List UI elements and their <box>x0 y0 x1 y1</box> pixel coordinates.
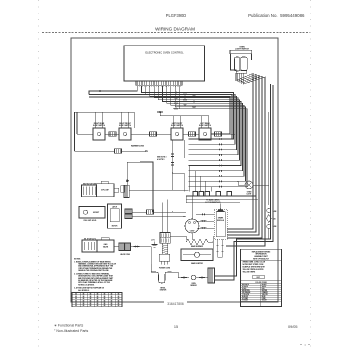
svg-text:Publication No. 5995449086: Publication No. 5995449086 <box>248 13 305 18</box>
svg-text:BROWN: BROWN <box>262 290 267 292</box>
wire under strip <box>186 199 258 201</box>
wire bundle lamp leads (diagonal) <box>227 73 253 229</box>
EOC pin header P1 <box>136 81 182 85</box>
oven lamp body <box>96 184 114 197</box>
surface element E4 <box>215 132 222 136</box>
wire feeder mid 2 <box>183 140 185 158</box>
svg-text:316417806: 316417806 <box>167 302 184 306</box>
wire supply feed 1 <box>215 84 271 276</box>
svg-text:YELLOW STRIPE: YELLOW STRIPE <box>243 271 256 273</box>
svg-text:SPARK: SPARK <box>218 217 224 220</box>
warmer arrow <box>122 150 149 152</box>
wire oven light right <box>253 184 269 186</box>
svg-text:09/05: 09/05 <box>288 325 298 329</box>
wire valve <box>114 246 119 248</box>
junction row B <box>172 211 173 212</box>
lamp 2 <box>241 57 247 71</box>
svg-text:REPLACEMENT WIRING: REPLACEMENT WIRING <box>252 250 271 253</box>
svg-text:OVN. LMP.: OVN. LMP. <box>101 190 110 192</box>
svg-text:88: 88 <box>90 303 92 305</box>
svg-text:TO BAKE & BROIL: TO BAKE & BROIL <box>206 198 219 201</box>
svg-text:BAKE IGNITOR: BAKE IGNITOR <box>191 262 203 265</box>
svg-text:MODULE: MODULE <box>217 220 224 222</box>
wire row B lower <box>132 216 186 218</box>
fold mark right <box>310 0 312 350</box>
bake burner element <box>186 239 208 245</box>
svg-text:1. MODEL IS REPLACEMENT OF: 1. MODEL IS REPLACEMENT OF MAIN WIRING <box>74 260 111 263</box>
lamp stub connector <box>114 188 119 192</box>
wire block to right <box>170 235 186 237</box>
svg-text:LATCH: LATCH <box>112 206 117 209</box>
svg-text:YELLOW: YELLOW <box>262 294 268 296</box>
svg-text:88: 88 <box>90 298 92 300</box>
connector mark mid wire <box>158 111 162 113</box>
oven lamp harness comb <box>82 185 97 197</box>
svg-text:SURF. SWITCH: SURF. SWITCH <box>119 125 132 127</box>
wire motor to module upper <box>196 213 214 215</box>
svg-text:SURF. SWITCH: SURF. SWITCH <box>199 125 212 127</box>
legend box <box>241 249 282 306</box>
svg-text:LIGHT: LIGHT <box>247 194 252 196</box>
surface element E1 <box>109 132 116 136</box>
surface element E3 <box>189 132 196 136</box>
connector J2 <box>124 185 130 197</box>
svg-text:88: 88 <box>111 293 113 295</box>
svg-text:CONV: CONV <box>190 231 196 233</box>
bottom left table <box>72 293 122 307</box>
wire bus L1 <box>89 95 232 140</box>
svg-text:88: 88 <box>104 293 106 295</box>
surface switch SW2 <box>119 128 131 140</box>
broil ignitor loop <box>151 272 172 283</box>
oven lamp assembly outline <box>230 50 252 53</box>
thermal fuse diamond <box>266 215 271 223</box>
fuse F1 <box>267 209 271 213</box>
wire to sensor <box>178 277 189 279</box>
connector mark valve wire <box>134 245 138 247</box>
svg-text:Y YELLOW: Y YELLOW <box>242 294 250 296</box>
gas valve box <box>97 240 114 252</box>
svg-text:WHITE: WHITE <box>262 286 266 288</box>
key badge <box>253 275 265 278</box>
wire valve to right <box>131 246 152 248</box>
svg-text:V VIOLET: V VIOLET <box>242 300 248 302</box>
color code table <box>241 285 282 287</box>
svg-text:VALVE: VALVE <box>103 245 109 248</box>
svg-text:R RED: R RED <box>242 288 246 290</box>
part number <box>164 300 187 306</box>
svg-text:BLUE: BLUE <box>262 296 266 298</box>
wire spark module leads <box>217 239 219 257</box>
svg-text:88: 88 <box>75 298 77 300</box>
wire latch to right <box>129 190 188 192</box>
svg-text:88: 88 <box>97 296 99 298</box>
svg-text:POWER CORD: POWER CORD <box>159 267 171 269</box>
svg-text:88: 88 <box>111 296 113 298</box>
svg-text:88: 88 <box>104 298 106 300</box>
fuse F2 <box>267 225 271 229</box>
svg-text:NOTES:: NOTES: <box>74 259 81 261</box>
wire fan EOC pins to right bundle <box>142 86 234 139</box>
svg-text:88: 88 <box>118 303 120 305</box>
surface element E2 <box>150 132 157 136</box>
wire row B upper <box>132 211 147 213</box>
svg-text:WARMER ZONE: WARMER ZONE <box>131 145 145 148</box>
svg-text:88: 88 <box>83 303 85 305</box>
connector valve B <box>125 243 131 251</box>
svg-text:88: 88 <box>104 303 106 305</box>
wire motor top <box>191 196 193 219</box>
svg-text:3. A FUSE LINK MAY NOT A: 3. A FUSE LINK MAY NOT APPEAR ON <box>74 287 105 290</box>
svg-text:88: 88 <box>83 298 85 300</box>
wire fuse down <box>268 229 270 240</box>
svg-text:OVEN: OVEN <box>191 283 195 285</box>
svg-text:88: 88 <box>104 296 106 298</box>
svg-text:88: 88 <box>118 298 120 300</box>
svg-text:& NOTE 5: & NOTE 5 <box>157 159 164 161</box>
svg-text:W WHITE: W WHITE <box>242 286 248 288</box>
diagram border <box>71 38 278 302</box>
svg-text:88: 88 <box>118 296 120 298</box>
spark module A1 <box>214 209 227 239</box>
svg-text:88: 88 <box>111 298 113 300</box>
wire feeder mid 1 <box>172 140 174 190</box>
wire left riser pair <box>76 112 78 134</box>
connector block L1/N <box>160 233 170 244</box>
svg-text:BROIL: BROIL <box>161 288 166 290</box>
svg-text:RED: RED <box>262 288 265 290</box>
terminal strip TS1 <box>186 195 256 197</box>
svg-text:L1 N: L1 N <box>151 240 155 242</box>
svg-text:88: 88 <box>83 293 85 295</box>
svg-text:88: 88 <box>118 293 120 295</box>
scan marks <box>300 344 310 347</box>
svg-text:ASSEMBLY PART: ASSEMBLY PART <box>254 255 267 258</box>
svg-text:MOTOR: MOTOR <box>112 226 118 228</box>
connector nub <box>121 186 125 192</box>
svg-text:88: 88 <box>97 298 99 300</box>
svg-text:BL BLUE: BL BLUE <box>242 296 248 298</box>
wire drops into oven cavity strip <box>188 166 190 192</box>
svg-text:SENSOR: SENSOR <box>190 285 197 287</box>
oven light B1 <box>245 181 253 189</box>
svg-text:88: 88 <box>90 293 92 295</box>
svg-text:SOCKET: SOCKET <box>93 212 99 214</box>
svg-text:88: 88 <box>83 296 85 298</box>
door latch motor <box>108 204 122 228</box>
wire motor bottom <box>191 233 193 240</box>
svg-text:∗ Functional Parts: ∗ Functional Parts <box>54 323 83 327</box>
wire drops to switches <box>95 112 97 128</box>
svg-text:88: 88 <box>75 296 77 298</box>
svg-text:VALVE CONN: VALVE CONN <box>120 253 130 256</box>
wire bus L2 <box>89 97 230 134</box>
svg-text:° Non-Illustrated Parts: ° Non-Illustrated Parts <box>54 329 89 333</box>
svg-text:WIRING DIAGRAM: WIRING DIAGRAM <box>155 27 195 32</box>
svg-text:SURF. SWITCH: SURF. SWITCH <box>93 125 106 127</box>
svg-text:88: 88 <box>75 303 77 305</box>
svg-text:PLGF390D: PLGF390D <box>166 13 187 18</box>
svg-text:88: 88 <box>90 296 92 298</box>
connector valve A <box>119 243 125 251</box>
ground symbol <box>154 242 156 245</box>
connector mark on left pin wire <box>98 90 102 92</box>
svg-text:BR BROWN: BR BROWN <box>242 290 250 292</box>
svg-text:OVEN: OVEN <box>247 191 252 193</box>
svg-text:88: 88 <box>75 293 77 295</box>
connector cluster J3 <box>125 209 132 214</box>
warmer element <box>115 149 122 153</box>
wire surface switch row <box>77 133 93 135</box>
lamp 1 <box>235 57 240 71</box>
power cord braid <box>162 243 167 254</box>
oven lamp socket box <box>79 207 105 219</box>
svg-text:88: 88 <box>111 303 113 305</box>
svg-text:VIOLET: VIOLET <box>262 300 267 302</box>
legend divider <box>241 260 282 262</box>
svg-text:ELECTRONIC OVEN CONTROL: ELECTRONIC OVEN CONTROL <box>145 51 184 55</box>
electronic oven control U1 <box>124 46 205 81</box>
lamp terminals <box>236 71 247 73</box>
wire burner to riser <box>208 241 213 243</box>
svg-text:BAKE BURNER: BAKE BURNER <box>191 245 204 248</box>
svg-text:15: 15 <box>174 325 178 329</box>
wire supply feed 2 <box>215 85 273 280</box>
svg-text:2. CONNECT WIRE TO MATCHIN: 2. CONNECT WIRE TO MATCHING TERMINAL <box>74 272 109 275</box>
wire EOC pin bus left <box>89 86 137 94</box>
svg-text:SURF. SWITCH: SURF. SWITCH <box>171 125 184 127</box>
wire oven light left <box>238 184 245 186</box>
wire to module corner <box>197 227 214 229</box>
ignitor <box>194 252 199 257</box>
title rule <box>42 31 310 33</box>
wire risers into block <box>162 203 164 233</box>
oven sensor RTD <box>191 275 196 280</box>
wire broil left <box>150 264 152 272</box>
svg-text:88: 88 <box>97 303 99 305</box>
wire riser from J2 <box>126 162 128 185</box>
svg-text:SEE NOTE 3: SEE NOTE 3 <box>157 157 167 159</box>
connector mark sensor <box>182 276 186 278</box>
surface switch SW4 <box>199 128 211 140</box>
choke L2 <box>147 210 154 214</box>
svg-text:88: 88 <box>97 293 99 295</box>
spark module top terminal <box>220 204 222 209</box>
bake ignitor assembly <box>181 249 213 261</box>
surface switch SW1 <box>93 128 105 140</box>
wire feeder to strip left <box>173 172 185 174</box>
svg-text:IGNITOR: IGNITOR <box>160 290 167 292</box>
convection fan motor M1 <box>185 219 199 233</box>
power cord plug <box>159 254 169 261</box>
surface switch SW3 <box>171 128 183 140</box>
terminal block TB1 <box>208 268 215 283</box>
svg-text:OVN. LMP. SOLD.: OVN. LMP. SOLD. <box>83 220 97 222</box>
wire feeder mid 3 <box>140 162 153 212</box>
wire warmer <box>75 150 115 152</box>
gas valve comb <box>82 240 97 252</box>
fold mark left <box>38 0 40 350</box>
wire motor to module lower <box>196 220 214 222</box>
wire feed to fuse chain <box>268 112 270 205</box>
